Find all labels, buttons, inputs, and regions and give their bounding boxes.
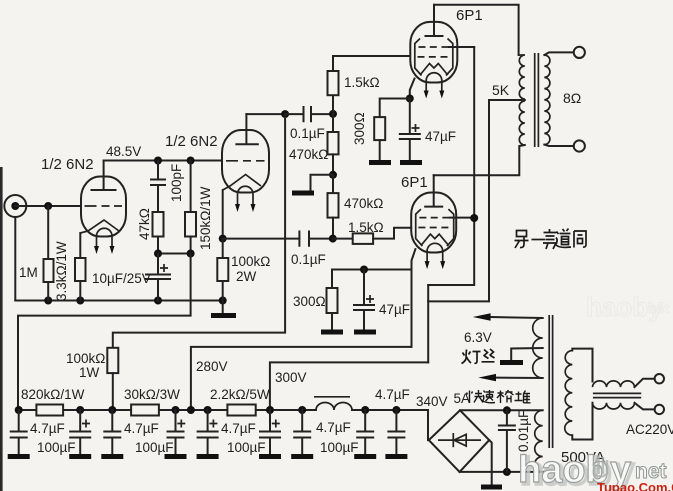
bridge diode symbol — [438, 439, 481, 441]
capacitor 4.7uF #2 — [104, 410, 120, 454]
V3 cathode — [420, 64, 448, 76]
wire bridge negative to ground — [489, 440, 492, 484]
resistor 1M — [47, 206, 49, 259]
wire bridge bottom AC to HV winding — [460, 471, 543, 473]
svg-text:4.7µF: 4.7µF — [30, 421, 65, 436]
V3 heater — [426, 73, 442, 92]
node rail dots — [15, 406, 23, 414]
svg-text:100kΩ: 100kΩ — [231, 254, 270, 269]
capacitor 0.1uF upper coupling — [285, 113, 303, 115]
resistor 3.3k cathode V1 — [79, 233, 81, 258]
node 150k top junction — [187, 157, 195, 165]
resistor 30k/3W — [131, 405, 159, 416]
svg-text:300V: 300V — [275, 370, 307, 385]
AC filter bottom coil — [593, 403, 635, 409]
capacitor 100uF #4 — [260, 410, 280, 454]
tube V3 6P1 upper envelope — [410, 22, 457, 83]
svg-text:6P1: 6P1 — [401, 174, 428, 191]
svg-text:30kΩ/3W: 30kΩ/3W — [124, 387, 180, 402]
node bus/10uF — [154, 297, 162, 305]
resistor 300 upper cathode — [374, 117, 385, 140]
V2 grid dashes — [226, 160, 265, 162]
ground (bus right end) — [222, 301, 224, 314]
PT HV winding — [535, 410, 543, 472]
svg-text:820kΩ/1W: 820kΩ/1W — [21, 387, 85, 402]
wire V4 cathode node — [332, 269, 412, 271]
svg-text:0.01µF: 0.01µF — [516, 410, 531, 452]
wire bridge top AC to HV winding — [460, 409, 543, 411]
AC filter top coil — [593, 381, 635, 387]
svg-text:5K: 5K — [492, 82, 510, 98]
wire jack to V1 grid — [15, 205, 81, 207]
note other channel same hanzi — [515, 229, 587, 250]
wire primary top to filter — [572, 349, 592, 382]
faint watermark echo middle right — [586, 292, 669, 322]
capacitor 4.7uF #1 — [11, 410, 27, 454]
wire V3 cathode node — [380, 99, 410, 118]
resistor 470k upper grid leak — [332, 114, 334, 132]
OPT primary winding lower — [519, 101, 525, 145]
wire heater bottom lead with arrow — [496, 377, 543, 379]
svg-text:10µF/25V: 10µF/25V — [92, 271, 151, 286]
svg-text:3.3kΩ/1W: 3.3kΩ/1W — [54, 241, 69, 301]
capacitor 47uF lower cathode — [363, 270, 365, 305]
OPT center tap 5K — [489, 99, 525, 101]
svg-text:1W: 1W — [79, 365, 100, 380]
wire V2 cathode to lower coupling cap — [223, 238, 300, 240]
svg-text:340V: 340V — [416, 394, 448, 409]
V1 grid dashes — [85, 205, 123, 207]
V2 cathode — [223, 175, 261, 191]
svg-text:2.2kΩ/5W: 2.2kΩ/5W — [210, 387, 270, 402]
wire main B+ drop to bridge — [427, 285, 429, 362]
svg-text:1/2 6N2: 1/2 6N2 — [165, 133, 218, 150]
svg-text:8Ω: 8Ω — [563, 90, 581, 106]
V4 g2 dashes — [419, 217, 449, 219]
node jack/1M junction — [44, 202, 52, 210]
wire B+ feed drop from anode node — [113, 114, 285, 348]
V2 heater — [238, 186, 254, 205]
V4 g2 lead to g2 bus — [450, 217, 474, 219]
wire primary bottom to filter — [572, 403, 592, 440]
svg-text:48.5V: 48.5V — [106, 144, 141, 159]
svg-text:4.7µF: 4.7µF — [375, 387, 410, 402]
svg-text:100kΩ: 100kΩ — [66, 351, 105, 366]
svg-text:1.5kΩ: 1.5kΩ — [348, 220, 384, 235]
V4 cathode lead — [412, 249, 416, 347]
capacitor 47uF upper cathode — [409, 99, 411, 134]
PT core — [549, 315, 552, 448]
resistor 100k/2W — [222, 239, 224, 258]
svg-text:47kΩ: 47kΩ — [137, 208, 152, 240]
input jack J1 — [4, 195, 26, 217]
label dengsi (filament) hanzi — [462, 349, 495, 364]
capacitor 100uF #2 — [168, 410, 184, 454]
label kuai su qiao dui (fast bridge) hanzi — [467, 390, 531, 403]
svg-text:0.1µF: 0.1µF — [290, 126, 325, 141]
choke filter inductor — [316, 403, 352, 411]
resistor 100k/1W — [107, 348, 118, 373]
wire V2 anode to coupling node — [246, 113, 285, 115]
terminal speaker + — [574, 47, 585, 58]
capacitor 0.01uF — [499, 410, 515, 472]
wire ground bus — [15, 300, 222, 302]
svg-text:100µF: 100µF — [37, 440, 76, 455]
resistor 47k — [153, 212, 164, 237]
V1 anode bar and lead — [92, 161, 116, 191]
resistor 2.2k/5W — [227, 405, 255, 416]
svg-text:470kΩ: 470kΩ — [289, 147, 328, 162]
svg-text:6P1: 6P1 — [456, 7, 483, 24]
capacitor 4.7uF #5 — [388, 410, 404, 454]
V3 anode lead — [426, 5, 443, 36]
V3 g2 dashes — [419, 46, 449, 48]
svg-text:300Ω: 300Ω — [293, 294, 326, 309]
capacitor 100pF — [157, 161, 159, 180]
capacitor 0.1uF lower coupling — [299, 232, 309, 246]
V4 cathode — [421, 234, 449, 246]
wire V3 anode to OPT primary top — [434, 5, 519, 55]
V1 cathode — [80, 220, 119, 233]
OPT core — [535, 53, 539, 147]
tube V4 6P1 lower envelope — [411, 193, 456, 253]
wire 300V riser — [270, 362, 428, 410]
svg-text:100µF: 100µF — [135, 440, 174, 455]
svg-text:150kΩ/1W: 150kΩ/1W — [198, 186, 213, 250]
wire jack down to ground bus — [14, 217, 16, 301]
capacitor 100uF #1 — [70, 410, 90, 454]
wire V3 g2 lead — [449, 46, 474, 48]
tube V2 1/2 6N2 envelope — [222, 130, 269, 193]
wire 48.5V anode rail to V2 grid — [104, 160, 222, 162]
capacitor 4.7uF #4 — [357, 410, 373, 454]
wire heater center tap to ground — [511, 348, 543, 360]
V4 anode lead — [425, 175, 442, 206]
wire OPT primary bottom to V4 anode — [434, 145, 525, 175]
wire secondary top to terminal — [544, 52, 573, 55]
svg-text:AC220V: AC220V — [626, 422, 673, 437]
svg-text:1/2 6N2: 1/2 6N2 — [41, 156, 94, 173]
svg-text:4.7µF: 4.7µF — [221, 421, 256, 436]
svg-text:100µF: 100µF — [227, 440, 266, 455]
wire V2 cathode down to node — [222, 190, 224, 239]
node bus/1M — [44, 297, 52, 305]
tube V1 1/2 6N2 envelope — [81, 177, 126, 237]
OPT secondary winding — [544, 55, 550, 145]
terminal AC L — [655, 374, 664, 383]
node bus/100k2W — [219, 297, 227, 305]
svg-text:100µF: 100µF — [320, 440, 359, 455]
V4 heater — [427, 243, 443, 262]
V3 plate brackets — [415, 39, 453, 76]
resistor 150k/1W — [190, 161, 192, 213]
resistor 820k/1W — [36, 405, 63, 416]
wire 47k/150k bottoms — [158, 253, 191, 255]
capacitor 100uF #3 — [198, 410, 218, 454]
watermark haoby.net — [518, 449, 667, 491]
node bus/3.3k — [76, 297, 84, 305]
svg-text:47µF: 47µF — [379, 302, 410, 317]
svg-text:47µF: 47µF — [425, 129, 456, 144]
PT primary winding — [565, 351, 573, 436]
svg-text:1M: 1M — [19, 265, 38, 280]
svg-text:300Ω: 300Ω — [352, 112, 367, 145]
svg-text:net: net — [648, 300, 669, 316]
svg-text:280V: 280V — [196, 359, 228, 374]
scan left edge artifact — [0, 167, 3, 491]
resistor 300 lower cathode — [331, 270, 333, 289]
svg-text:470kΩ: 470kΩ — [344, 196, 383, 211]
terminal AC N — [655, 405, 664, 414]
wire heater top lead with arrow — [491, 317, 543, 318]
svg-text:6.3V: 6.3V — [464, 330, 492, 345]
svg-text:Tupao.Com.Cn: Tupao.Com.Cn — [597, 480, 673, 491]
resistor 470k lower grid leak — [332, 175, 334, 193]
AC filter core — [593, 393, 641, 397]
V4 g1 dashes — [418, 227, 448, 229]
ground stub between 470k resistors — [311, 175, 334, 191]
wire 280V long feed — [191, 347, 412, 410]
svg-text:0.1µF: 0.1µF — [291, 252, 326, 267]
V4 plate brackets — [416, 209, 454, 246]
terminal speaker - — [574, 140, 585, 151]
node 47k top junction — [154, 157, 162, 165]
capacitor 10uF/25V — [157, 254, 159, 275]
wire secondary bottom to terminal — [544, 145, 573, 146]
resistor 1.5k upper grid stopper — [332, 95, 334, 114]
resistor 1.5k lower grid stopper — [333, 238, 353, 240]
svg-text:4.7µF: 4.7µF — [124, 421, 159, 436]
svg-text:1.5kΩ: 1.5kΩ — [344, 75, 380, 90]
wire 150k bottom down to feed line — [18, 254, 191, 411]
wire g2 bus vertical — [428, 47, 474, 285]
V3 g1 dashes — [418, 56, 448, 58]
wire PSU B+ rail — [18, 410, 428, 440]
V2 anode bar and lead — [236, 114, 257, 144]
V1 heater — [97, 228, 113, 247]
capacitor 4.7uF #3 — [294, 410, 310, 454]
wire CT B+ drop — [428, 100, 489, 301]
svg-text:100pF: 100pF — [169, 164, 184, 202]
OPT primary winding upper — [519, 55, 525, 99]
PT heater winding 6.3V — [533, 318, 543, 378]
svg-text:2W: 2W — [236, 269, 257, 284]
bridge rectifier 5A diamond — [429, 410, 489, 472]
V3 cathode lead — [410, 79, 415, 99]
svg-text:4.7µF: 4.7µF — [316, 420, 351, 435]
